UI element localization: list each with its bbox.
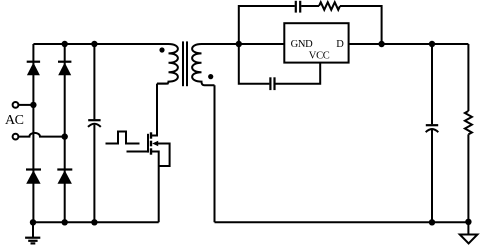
svg-text:GND: GND bbox=[291, 39, 314, 50]
svg-text:D: D bbox=[336, 39, 344, 50]
svg-text:VCC: VCC bbox=[309, 51, 330, 62]
svg-text:AC: AC bbox=[5, 113, 24, 128]
